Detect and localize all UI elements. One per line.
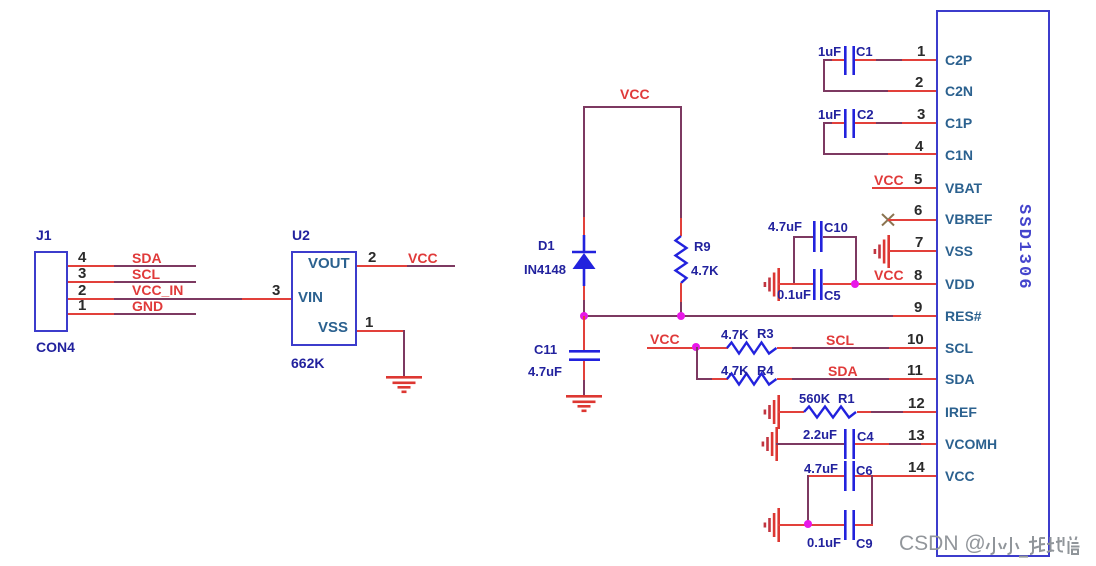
wire C10 right branch down dark — [855, 236, 857, 285]
wire above R9 red — [680, 218, 682, 236]
wire C4 right dark — [889, 443, 921, 445]
wire pin2 dark — [823, 90, 888, 92]
label 4.7uF (C11) — [528, 365, 562, 378]
label CON4 — [36, 341, 75, 354]
net label VCC (pullups) — [650, 332, 680, 346]
U2 pin 3 number — [272, 283, 280, 298]
wire U2 VSS red — [357, 330, 404, 332]
wire C2 loop vertical dark — [823, 122, 825, 155]
wire C6/C9 right branch dark — [871, 475, 873, 525]
wire U2 VSS down dark — [403, 330, 405, 377]
pin 9 number — [914, 300, 922, 315]
label 0.1uF (C9) — [807, 536, 841, 549]
J1 pin 3 number — [78, 266, 86, 281]
wire C2 left red — [832, 122, 844, 124]
pin 4 number — [915, 139, 923, 154]
pin name C1P — [945, 116, 972, 130]
label R1 — [838, 392, 855, 405]
wire RES# to pin9 red — [893, 315, 936, 317]
label C4 — [857, 430, 874, 443]
wire C11 bottom dark — [583, 380, 585, 396]
capacitor C10 — [813, 221, 825, 253]
net label VCC (pin8) — [874, 268, 904, 282]
pin 12 number — [908, 396, 925, 411]
pin 8 number — [914, 268, 922, 283]
wire C1 left red — [832, 59, 844, 61]
wire R4 dark (SDA net) — [792, 378, 889, 380]
wire R3 right red — [777, 347, 792, 349]
label R3 — [757, 327, 774, 340]
junction at D1/C11 — [580, 312, 588, 320]
U2 pin 2 number — [368, 250, 376, 265]
J1 pin 4 number — [78, 250, 86, 265]
no-connect X (pin6) — [882, 214, 895, 226]
label 662K — [291, 357, 324, 370]
wire C5 right red — [823, 283, 936, 285]
junction pin8 — [851, 280, 859, 288]
label C1 — [856, 45, 873, 58]
U2 pin VIN name — [298, 291, 323, 305]
wire pin4 dark — [823, 153, 888, 155]
wire C1 right red — [855, 59, 876, 61]
resistor R3 — [727, 348, 777, 362]
wire R1 right red — [857, 411, 871, 413]
wire to pin1 red — [902, 59, 936, 61]
label 4.7K (R9) — [691, 264, 718, 277]
wire C10 left branch down dark — [793, 236, 795, 285]
net label SDA — [828, 364, 858, 378]
wire J1 pin2 red — [68, 298, 114, 300]
J1 pin 2 number — [78, 283, 86, 298]
wire ground to C5 red — [778, 283, 813, 285]
U2 pin VOUT name — [308, 257, 350, 271]
wire below D1 dark — [583, 300, 585, 316]
wire ground to C4 dark — [776, 443, 845, 445]
pin name C2P — [945, 53, 972, 67]
junction C9 — [804, 520, 812, 528]
wire C6 left red — [808, 475, 844, 477]
wire C9 right red — [855, 524, 873, 526]
net label SDA — [132, 251, 162, 265]
ground under C11 — [566, 395, 606, 415]
pin 2 number — [915, 75, 923, 90]
pin name VDD — [945, 277, 975, 291]
wire pin6 red — [888, 219, 936, 221]
wire C10 right dark — [823, 236, 856, 238]
wire RES# horizontal dark — [583, 315, 893, 317]
junction VCC pullup — [692, 343, 700, 351]
capacitor C11 — [569, 350, 601, 361]
capacitor C9 — [844, 510, 856, 541]
wire pin4 red — [888, 153, 936, 155]
net label VCC top (D1/R9 rail) — [620, 87, 650, 101]
connector J1 — [34, 251, 68, 332]
pin 11 number — [907, 363, 923, 378]
pin 3 number — [917, 107, 925, 122]
label 560K — [799, 392, 830, 405]
net label VCC (pin5) — [874, 173, 904, 187]
capacitor C5 — [813, 269, 825, 301]
wire J1 pin4 dark (SDA net) — [114, 265, 196, 267]
wire below D1 red — [583, 286, 585, 300]
J1 pin 1 number — [78, 298, 86, 313]
pin name SCL — [945, 341, 973, 355]
wire pin2 red — [888, 90, 936, 92]
pin name VSS — [945, 244, 973, 258]
pin 14 number — [908, 460, 925, 475]
label R4 — [757, 364, 774, 377]
label C6 — [856, 464, 873, 477]
wire C2 right red — [855, 122, 876, 124]
ground at R1 (pin12 row) — [762, 395, 782, 430]
wire below R9 dark — [680, 302, 682, 316]
IC U1 SSD1306 box — [936, 10, 1050, 557]
wire VCC rail horizontal dark — [583, 106, 682, 108]
wire J1 pin1 dark (GND net) — [114, 313, 196, 315]
wire pullup branch down dark — [696, 347, 698, 379]
capacitor C1 — [844, 46, 856, 76]
pin name C2N — [945, 84, 973, 98]
wire ground to R1 red — [778, 411, 804, 413]
wire J1 pin1 red — [68, 313, 114, 315]
wire to pin13 red — [921, 443, 936, 445]
net label GND — [132, 299, 163, 313]
capacitor C4 — [844, 429, 856, 460]
wire C11 top red — [583, 316, 585, 350]
net label VCC_IN — [132, 283, 183, 297]
label C5 — [824, 289, 841, 302]
U2 pin 1 number — [365, 315, 373, 330]
wire SDA to pin11 red — [889, 378, 936, 380]
U2 pin VSS name — [318, 321, 348, 335]
pin 1 number — [917, 44, 925, 59]
wire pin7 red — [889, 250, 936, 252]
wire R4 right red — [777, 378, 792, 380]
wire VCC to R3 red — [647, 347, 728, 349]
label C2 — [857, 108, 874, 121]
wire C4 right red — [855, 443, 889, 445]
label 4.7K (R3) — [721, 328, 748, 341]
capacitor C6 — [844, 461, 856, 492]
pin name VCOMH — [945, 437, 997, 451]
wire VCC rail right vertical dark — [680, 106, 682, 218]
label 2.2uF — [803, 428, 837, 441]
watermark chinese glyphs — [986, 535, 1086, 558]
pin name VBAT — [945, 181, 982, 195]
label 1uF (C2) — [818, 108, 841, 121]
label 1uF (C1) — [818, 45, 841, 58]
pin name SDA — [945, 372, 975, 386]
net label SCL — [132, 267, 160, 281]
ground at pin7 — [872, 235, 892, 269]
ground at C4 (pin13 row) — [760, 427, 780, 462]
resistor R9 — [681, 236, 695, 284]
wire C1 right dark — [876, 59, 902, 61]
wire ground to C9 red — [778, 524, 844, 526]
wire to pin3 red — [902, 122, 936, 124]
diode D1 — [571, 235, 599, 301]
wire R3 dark (SCL net) — [792, 347, 889, 349]
wire C2 right dark — [876, 122, 902, 124]
label 4.7uF (C10) — [768, 220, 802, 233]
capacitor C2 — [844, 109, 856, 139]
pin name IREF — [945, 405, 977, 419]
label C9 — [856, 537, 873, 550]
ground under U2 — [386, 376, 426, 396]
wire C2 loop dark — [823, 122, 832, 124]
pin 10 number — [907, 332, 924, 347]
wire C1 loop dark — [823, 59, 832, 61]
junction at R9 — [677, 312, 685, 320]
ground at C5 (pin8 row) — [762, 268, 782, 302]
label C10 — [824, 221, 848, 234]
wire VCC rail left vertical dark — [583, 106, 585, 217]
wire U2 VOUT red — [357, 265, 407, 267]
wire C1 loop vertical dark — [823, 59, 825, 91]
resistor R4 — [727, 379, 777, 393]
label IN4148 — [524, 263, 566, 276]
pin name RES# — [945, 309, 982, 323]
wire J1 pin4 red — [68, 265, 114, 267]
label J1 — [36, 229, 52, 242]
wire branch to R4 dark — [696, 378, 712, 380]
regulator U2 — [291, 251, 357, 346]
wire J1 pin3 red — [68, 281, 114, 283]
wire SCL to pin10 red — [889, 347, 936, 349]
label R9 — [694, 240, 711, 253]
pin name VCC — [945, 469, 975, 483]
wire to pin12 red — [903, 411, 936, 413]
wire C6 right red — [855, 475, 936, 477]
watermark CSDN — [899, 533, 986, 555]
pin name VBREF — [945, 212, 992, 226]
ground at C9 (pin row below) — [762, 508, 782, 543]
label D1 — [538, 239, 555, 252]
pin 7 number — [915, 235, 923, 250]
wire branch to R4 red — [712, 378, 728, 380]
label 4.7uF (C6) — [804, 462, 838, 475]
wire above D1 red — [583, 217, 585, 236]
wire C6 branch down dark — [807, 475, 809, 525]
wire U2 VOUT dark (VCC net) — [407, 265, 455, 267]
pin 5 number — [914, 172, 922, 187]
net label VCC at U2 — [408, 251, 438, 265]
label 0.1uF (C5) — [777, 288, 811, 301]
wire below R9 red — [680, 283, 682, 302]
label 4.7K (R4) — [721, 364, 748, 377]
label U2 — [292, 229, 310, 242]
wire J1 pin3 dark (SCL net) — [114, 281, 196, 283]
pin name C1N — [945, 148, 973, 162]
pin 13 number — [908, 428, 925, 443]
label C11 — [534, 343, 557, 356]
pin 6 number — [914, 203, 922, 218]
wire pin5 red — [872, 187, 936, 189]
wire J1 pin2 dark (VCC_IN net) — [114, 298, 242, 300]
wire C11 bottom red — [583, 361, 585, 380]
wire R1 right dark — [871, 411, 903, 413]
IC name SSD1306 vertical — [1009, 204, 1033, 296]
resistor R1 — [804, 412, 857, 426]
net label SCL — [826, 333, 854, 347]
wire C10 left dark — [793, 236, 813, 238]
wire J1 pin2 to U2 VIN red — [242, 298, 291, 300]
